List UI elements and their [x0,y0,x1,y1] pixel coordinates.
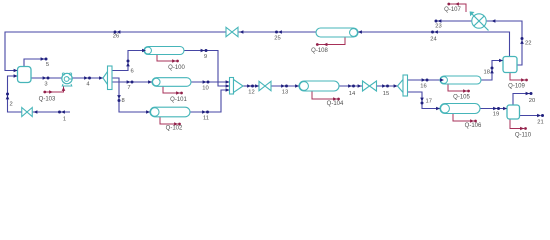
wire: stream 20 vapor from V-102 top [513,94,531,106]
Q-102 arrow and label [174,122,178,126]
stream 6 junction arrow [126,63,130,67]
svg-text:17: 17 [426,99,432,105]
energy wire Q-105 from E-105 [448,84,467,91]
stream 9 junction arrow [201,49,205,53]
tee TEE-100 [103,72,108,85]
svg-text:Q-110: Q-110 [515,133,532,139]
svg-text:Q-108: Q-108 [311,48,328,54]
svg-text:6: 6 [131,69,134,75]
vessel V-101 [503,57,517,73]
stream 3 junction arrow [43,76,47,80]
wire: stream 11 from E-102 up into mixer [190,90,230,112]
svg-text:16: 16 [420,84,426,90]
stream 14 junction arrow [348,84,352,88]
valve VLV-103 on recycle [226,27,238,36]
svg-text:2: 2 [10,102,13,108]
stream 18 junction arrow [490,70,494,74]
Q-103 arrow and label [43,91,46,94]
svg-text:7: 7 [127,85,130,91]
Q-100 arrow and label [172,59,176,63]
cooler E-108 on recycle [316,28,358,37]
energy wire Q-100 from E-100 [157,55,176,62]
stream 21 end arrow [537,114,541,118]
E-101 inlet arrow [148,80,152,84]
valve VLV-100 on feed [22,108,33,117]
energy wire Q-101 from E-101 [163,86,180,93]
wire: stream 5 vapor out of V-100 top [24,59,46,67]
energy wire Q-110 from V-102 [510,119,524,129]
stream 4 junction arrow [84,76,88,80]
svg-text:Q-101: Q-101 [170,97,187,103]
stream 20 end arrow [526,92,530,96]
vessel V-102 [507,105,520,119]
TEE-100 inlet arrow [99,76,103,80]
svg-text:Q-106: Q-106 [465,123,482,129]
stream 8 junction arrow [117,95,121,99]
V-101 inlet arrow [499,59,503,63]
wire: stream 19 from E-106 into vessel V-102 [480,108,507,110]
svg-text:Q-109: Q-109 [508,84,525,90]
wire: stream 8 from tee down to heater E-102 [112,78,150,112]
separator V-100 [18,67,32,83]
Q-110 arrow and label [520,127,524,131]
svg-text:1: 1 [63,117,66,123]
wire: stream 9 from E-100 down into mixer [184,51,230,87]
heater E-105 [440,76,481,84]
VLV-102 inlet arrow [358,84,362,88]
stream 5 end arrow [41,57,45,61]
stream 16 junction arrow [422,78,426,82]
wire: stream 17 tee bottom branch down to E-106 [408,92,441,109]
VLV-101 inlet arrow [255,84,259,88]
stream 22 junction arrow [520,40,524,44]
stream 15 junction arrow [382,84,386,88]
svg-text:4: 4 [86,82,90,88]
stream 2 junction arrow [6,96,10,100]
stream 19 junction arrow [493,107,497,111]
stream 17 junction arrow [420,98,424,102]
svg-text:20: 20 [529,98,535,104]
valve VLV-102 [363,81,377,91]
svg-text:13: 13 [282,90,288,96]
svg-text:24: 24 [430,37,437,43]
TEE-101 inlet arrow [394,84,398,88]
heater E-100 [144,47,184,55]
stream 24 junction arrow [434,30,438,34]
tee TEE-101 [398,80,404,93]
V-102 inlet arrow [503,107,507,111]
wire: stream 15 valve to tee TEE-101 [376,85,398,87]
cooler E-109 with fan cross [472,14,486,28]
E-102 inlet arrow [146,110,150,114]
Q-109 arrow and label [521,78,525,82]
stream 11 junction arrow [202,110,206,114]
wire: stream 21 liquid from V-102 right [519,115,541,117]
E-100 inlet arrow [142,49,146,53]
stream 7 junction arrow [127,80,131,84]
svg-text:Q-104: Q-104 [327,101,344,107]
svg-text:Q-103: Q-103 [39,97,56,103]
valve VLV-100 inlet arrow [34,110,38,114]
stream 23 end arrow [438,19,442,23]
Q-106 arrow and label [470,119,474,123]
energy wire Q-103 into pump P-100 [45,87,64,93]
wire: recycle stream 24-25-26 rail and left drop into separator V-100 [5,32,510,71]
energy wire Q-102 from E-102 [160,117,178,124]
svg-text:23: 23 [435,24,441,30]
VLV-103 inlet arrow [240,30,244,34]
heater E-102 [150,107,190,117]
svg-text:Q-102: Q-102 [166,126,183,132]
mixer inlet arrows [226,80,230,84]
cooler E-104 [299,81,339,91]
svg-text:12: 12 [248,90,254,96]
svg-text:19: 19 [493,112,499,118]
wire: stream 6 riser from tee to heater E-100 [112,51,146,71]
svg-text:26: 26 [113,34,119,40]
wire: stream 16 tee top branch to E-105 [408,79,445,81]
stream 10 junction arrow [203,80,207,84]
wire: stream 12 mixer outlet to valve VLV-101 [243,85,259,87]
wire: stream 3-4 rail from V-100 through pump to tee [31,77,103,79]
svg-text:18: 18 [484,70,490,76]
wire: stream 22 from V-101 up and left into cooler E-109 [436,21,522,65]
energy wire Q-107 into cooler E-109 [449,4,466,12]
stream 25 junction arrow [278,30,282,34]
svg-text:9: 9 [204,54,207,60]
wire: stream 7 from tee to heater E-101 [112,81,152,83]
svg-text:Q-105: Q-105 [453,95,470,101]
stream 13 junction arrow [281,84,285,88]
svg-text:22: 22 [525,41,531,47]
energy wire Q-108 from E-108 [317,37,345,45]
E-106 inlet arrow [436,107,440,111]
energy wire Q-104 from E-104 [312,91,337,99]
svg-text:11: 11 [203,116,209,122]
svg-text:5: 5 [46,62,49,68]
svg-text:10: 10 [202,86,208,92]
heater E-106 [440,104,480,114]
E-108 inlet arrow [358,30,362,34]
svg-text:8: 8 [122,98,125,104]
valve VLV-101 [259,81,271,90]
mixer MIX-100 [230,78,234,95]
svg-text:Q-100: Q-100 [168,65,185,71]
V-100 inlet arrows [14,69,18,73]
heater E-101 [152,78,191,87]
Q-101 arrow and label [176,91,180,95]
energy wire Q-109 from V-101 [510,73,525,81]
wire: stream 14 E-104 outlet to valve VLV-102 [339,85,362,87]
svg-text:14: 14 [349,91,356,97]
wire: stream 10 from E-101 into mixer [191,81,230,83]
Q-108 arrow and label [316,43,319,46]
Q-107 arrow and label [447,3,450,6]
Q-104 arrow and label [333,97,337,101]
stream 12 junction arrow [247,84,251,88]
wire: stream 18 from E-105 up into vessel V-101 [481,61,503,81]
svg-text:25: 25 [274,36,280,42]
svg-text:15: 15 [383,91,389,97]
stream 26 junction arrow [117,30,121,34]
stream 1 junction arrow [61,110,65,114]
energy wire Q-106 from E-106 [453,114,474,122]
cooler E-109 inlet arrow [492,19,496,23]
svg-text:Q-107: Q-107 [444,7,461,13]
svg-text:21: 21 [537,120,543,126]
Q-105 arrow and label [463,89,467,93]
E-104 inlet arrow [295,84,299,88]
pump P-100 [62,73,72,83]
E-105 inlet arrow [440,78,444,82]
svg-text:3: 3 [44,82,47,88]
wire: stream 13 valve to cooler E-104 [271,85,302,87]
wire: feed stream 1-2 from right end through valve up to V-100 [8,76,71,112]
